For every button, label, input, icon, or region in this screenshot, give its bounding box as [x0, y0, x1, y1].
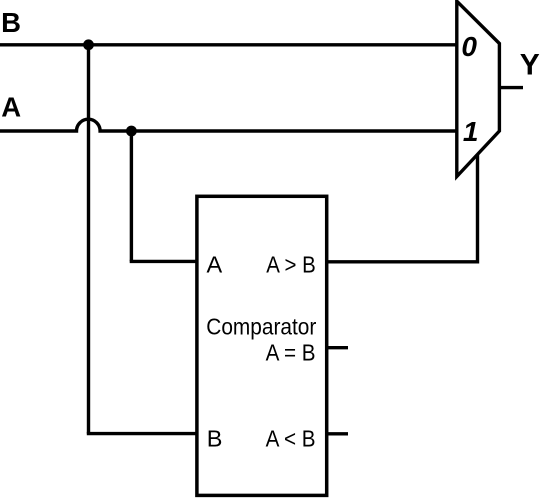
wire: A &gt; B output to mux select input: [327, 152, 478, 262]
wire: input B horizontal to mux input 0: [0, 43, 458, 46]
svg-text:Comparator: Comparator: [206, 314, 316, 340]
multiplexer 2:1 mux trapezoid: [457, 1, 500, 176]
svg-text:Y: Y: [520, 49, 540, 82]
svg-text:B: B: [1, 7, 21, 38]
svg-text:A = B: A = B: [266, 340, 316, 366]
svg-text:A > B: A > B: [266, 252, 316, 278]
wire: input A horizontal with hop over B wire, to mux input 1: [0, 119, 458, 131]
svg-text:A: A: [207, 252, 223, 278]
svg-text:B: B: [207, 425, 223, 451]
svg-text:A < B: A < B: [266, 425, 316, 451]
junction dot on A wire: [126, 126, 137, 137]
wire: B junction vertical down: [87, 45, 90, 434]
wire: A = B output stub: [327, 346, 348, 349]
wire: A down to comparator A input: [130, 260, 198, 263]
wire: A junction vertical down: [130, 131, 133, 261]
svg-text:A: A: [1, 92, 21, 123]
wire: mux output Y stub: [499, 86, 523, 89]
svg-text:0: 0: [461, 31, 477, 62]
wire: A &lt; B output stub: [327, 432, 348, 435]
svg-text:1: 1: [463, 116, 479, 147]
wire: B down to comparator B input: [87, 432, 198, 435]
comparator U1 box: [197, 196, 327, 495]
junction dot on B wire: [83, 39, 94, 50]
